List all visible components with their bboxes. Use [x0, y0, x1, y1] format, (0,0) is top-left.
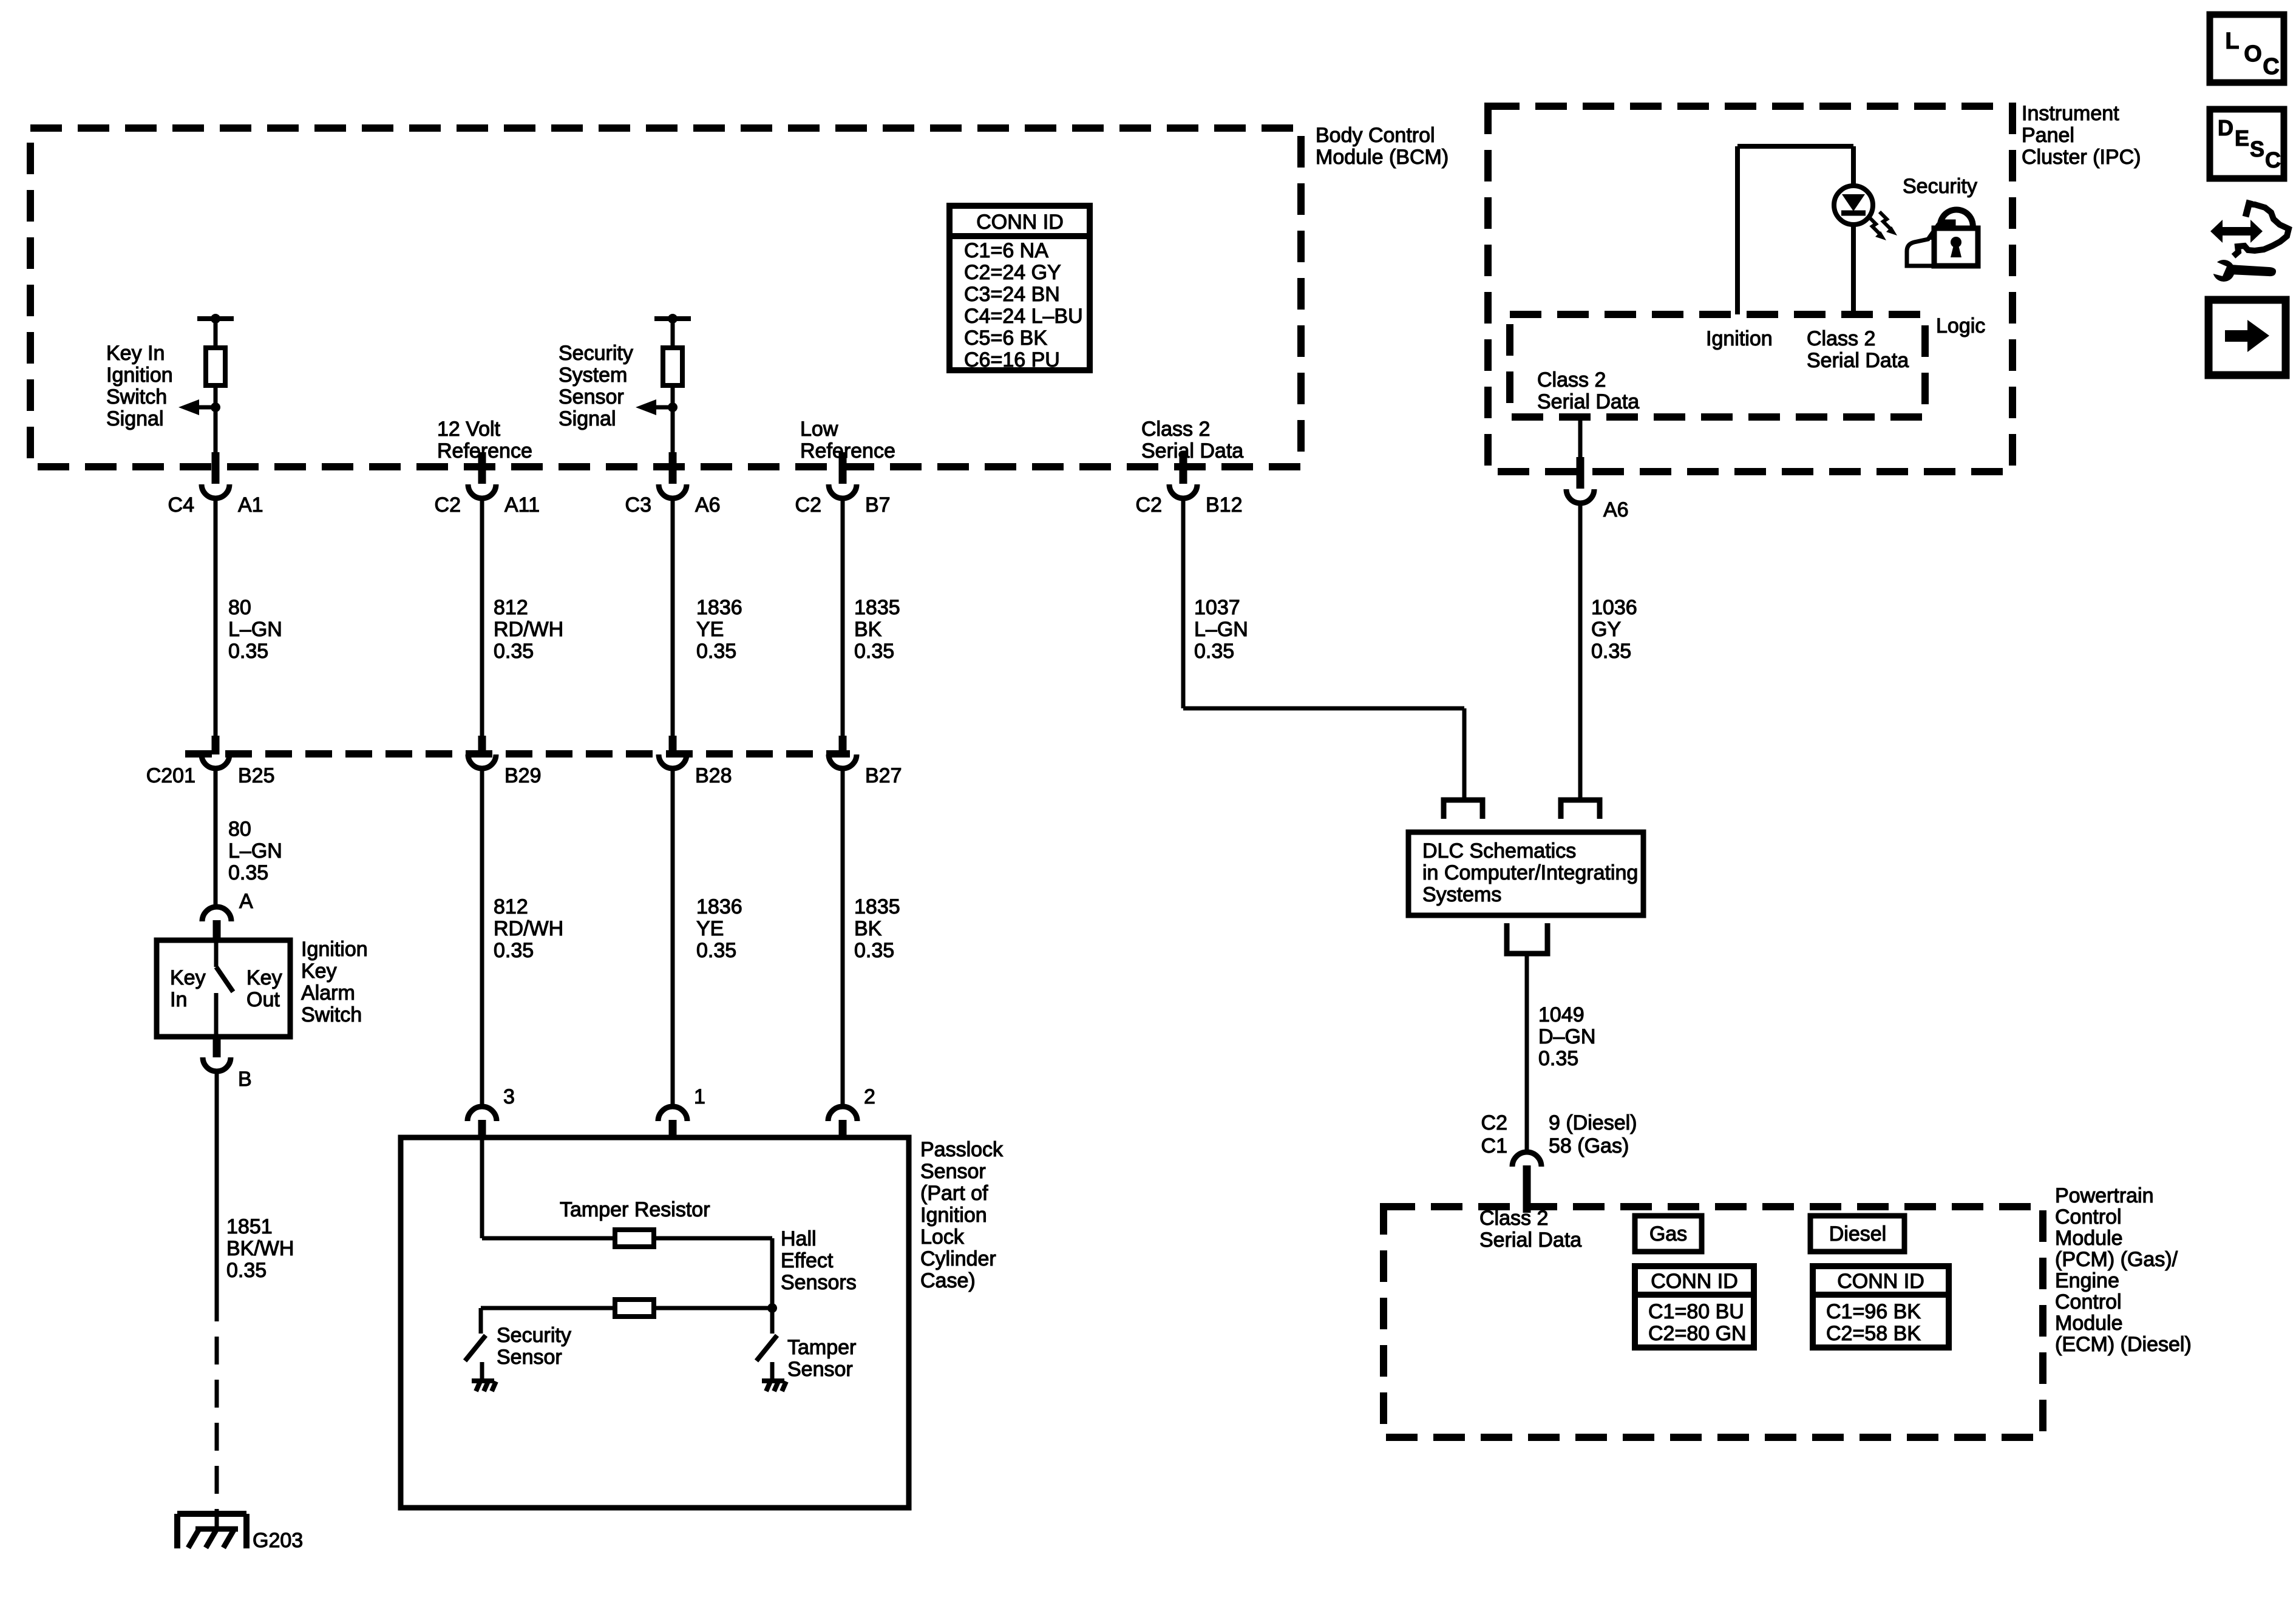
svg-text:1049: 1049	[1538, 1003, 1584, 1026]
svg-text:Class 2: Class 2	[1479, 1207, 1548, 1230]
svg-text:L: L	[2225, 29, 2239, 54]
svg-text:Sensor: Sensor	[787, 1358, 853, 1381]
svg-text:C6=16 PU: C6=16 PU	[964, 348, 1060, 371]
svg-text:Security: Security	[497, 1324, 571, 1347]
svg-text:0.35: 0.35	[228, 640, 268, 663]
svg-text:1851: 1851	[226, 1215, 273, 1238]
svg-text:Tamper Resistor: Tamper Resistor	[560, 1198, 710, 1221]
svg-text:Sensors: Sensors	[781, 1271, 857, 1294]
svg-text:Class 2: Class 2	[1141, 418, 1210, 441]
svg-text:C2: C2	[1136, 493, 1162, 517]
svg-text:Logic: Logic	[1936, 314, 1985, 337]
svg-text:0.35: 0.35	[226, 1259, 267, 1282]
svg-text:Body Control: Body Control	[1316, 124, 1435, 147]
svg-text:L–GN: L–GN	[228, 839, 282, 863]
svg-text:CONN ID: CONN ID	[1837, 1270, 1924, 1293]
svg-text:1836: 1836	[696, 895, 742, 918]
svg-text:Key: Key	[301, 960, 337, 983]
svg-text:0.35: 0.35	[696, 939, 736, 962]
svg-text:80: 80	[228, 818, 251, 841]
svg-text:812: 812	[494, 895, 528, 918]
svg-text:1835: 1835	[854, 895, 900, 918]
svg-text:Out: Out	[246, 988, 280, 1011]
svg-text:B12: B12	[1206, 493, 1243, 517]
svg-text:1835: 1835	[854, 596, 900, 619]
svg-text:C4: C4	[168, 493, 194, 517]
svg-text:in Computer/Integrating: in Computer/Integrating	[1422, 861, 1638, 884]
svg-text:Module: Module	[2055, 1227, 2123, 1250]
svg-text:B25: B25	[238, 764, 275, 787]
svg-text:C201: C201	[146, 764, 195, 787]
svg-text:Instrument: Instrument	[2022, 102, 2119, 125]
svg-text:RD/WH: RD/WH	[494, 618, 563, 641]
svg-text:Serial Data: Serial Data	[1141, 439, 1243, 463]
svg-text:Reference: Reference	[800, 439, 895, 463]
svg-text:58 (Gas): 58 (Gas)	[1549, 1134, 1629, 1158]
svg-text:Tamper: Tamper	[787, 1336, 856, 1359]
svg-text:9 (Diesel): 9 (Diesel)	[1549, 1111, 1637, 1134]
svg-text:Serial Data: Serial Data	[1537, 390, 1639, 413]
svg-text:C1=96 BK: C1=96 BK	[1826, 1300, 1921, 1323]
svg-text:C2: C2	[435, 493, 461, 517]
svg-text:A11: A11	[504, 493, 540, 517]
svg-text:Key In: Key In	[106, 342, 165, 365]
svg-text:Class 2: Class 2	[1537, 368, 1606, 392]
svg-text:Module: Module	[2055, 1312, 2123, 1335]
svg-text:1036: 1036	[1591, 596, 1637, 619]
svg-text:Security: Security	[1903, 175, 1977, 198]
svg-text:Key: Key	[170, 966, 206, 989]
svg-text:0.35: 0.35	[854, 640, 894, 663]
svg-text:Class 2: Class 2	[1807, 327, 1875, 350]
svg-text:Powertrain: Powertrain	[2055, 1184, 2154, 1207]
svg-text:(ECM) (Diesel): (ECM) (Diesel)	[2055, 1333, 2192, 1356]
svg-text:A: A	[239, 890, 253, 913]
svg-text:Module (BCM): Module (BCM)	[1316, 146, 1449, 169]
svg-text:B27: B27	[865, 764, 902, 787]
svg-text:D–GN: D–GN	[1538, 1025, 1595, 1048]
svg-text:G203: G203	[253, 1529, 303, 1552]
svg-text:System: System	[559, 364, 627, 387]
svg-text:C: C	[2265, 147, 2281, 172]
svg-text:C1=6 NA: C1=6 NA	[964, 239, 1048, 262]
svg-text:0.35: 0.35	[494, 939, 534, 962]
svg-text:Ignition: Ignition	[1706, 327, 1773, 350]
svg-text:(PCM) (Gas)/: (PCM) (Gas)/	[2055, 1248, 2178, 1271]
svg-text:BK/WH: BK/WH	[226, 1237, 294, 1260]
svg-text:GY: GY	[1591, 618, 1621, 641]
svg-text:Gas: Gas	[1649, 1222, 1687, 1246]
svg-text:DLC Schematics: DLC Schematics	[1422, 839, 1576, 863]
svg-text:Diesel: Diesel	[1829, 1222, 1886, 1246]
svg-text:Ignition: Ignition	[106, 364, 173, 387]
svg-text:Security: Security	[559, 342, 633, 365]
svg-text:YE: YE	[696, 917, 724, 940]
svg-text:0.35: 0.35	[1591, 640, 1631, 663]
svg-text:C1=80 BU: C1=80 BU	[1648, 1300, 1744, 1323]
svg-text:Effect: Effect	[781, 1249, 834, 1272]
svg-text:Control: Control	[2055, 1205, 2122, 1229]
svg-text:Signal: Signal	[106, 407, 164, 430]
svg-text:Sensor: Sensor	[559, 385, 624, 408]
svg-text:Sensor: Sensor	[920, 1160, 986, 1183]
svg-text:0.35: 0.35	[696, 640, 736, 663]
svg-text:1037: 1037	[1194, 596, 1240, 619]
svg-text:0.35: 0.35	[1538, 1047, 1578, 1070]
svg-text:Key: Key	[246, 966, 282, 989]
svg-text:Case): Case)	[920, 1269, 976, 1292]
svg-text:B: B	[238, 1068, 252, 1091]
svg-text:S: S	[2250, 137, 2264, 161]
svg-text:C1: C1	[1481, 1134, 1507, 1158]
svg-text:L–GN: L–GN	[228, 618, 282, 641]
svg-text:C3: C3	[625, 493, 651, 517]
svg-text:1: 1	[694, 1085, 705, 1108]
svg-text:Switch: Switch	[106, 385, 167, 408]
svg-text:0.35: 0.35	[228, 861, 268, 884]
svg-text:Serial Data: Serial Data	[1479, 1229, 1581, 1252]
svg-text:12 Volt: 12 Volt	[437, 418, 501, 441]
svg-text:D: D	[2218, 115, 2233, 140]
svg-text:C2=24 GY: C2=24 GY	[964, 261, 1061, 284]
svg-text:80: 80	[228, 596, 251, 619]
svg-text:C2: C2	[1481, 1111, 1507, 1134]
svg-text:Cylinder: Cylinder	[920, 1247, 996, 1270]
svg-text:C2: C2	[795, 493, 821, 517]
svg-text:Systems: Systems	[1422, 883, 1501, 906]
svg-text:A1: A1	[238, 493, 263, 517]
svg-text:CONN ID: CONN ID	[976, 211, 1064, 234]
svg-text:3: 3	[503, 1085, 515, 1108]
svg-text:Signal: Signal	[559, 407, 616, 430]
svg-text:B7: B7	[865, 493, 891, 517]
svg-text:Control: Control	[2055, 1290, 2122, 1314]
svg-text:Ignition: Ignition	[920, 1204, 987, 1227]
svg-text:Hall: Hall	[781, 1227, 817, 1250]
svg-text:Engine: Engine	[2055, 1269, 2119, 1292]
svg-text:B28: B28	[695, 764, 732, 787]
svg-text:RD/WH: RD/WH	[494, 917, 563, 940]
svg-text:Serial Data: Serial Data	[1807, 349, 1909, 372]
svg-text:Low: Low	[800, 418, 838, 441]
svg-text:812: 812	[494, 596, 528, 619]
svg-text:In: In	[170, 988, 187, 1011]
svg-text:Sensor: Sensor	[497, 1346, 562, 1369]
svg-text:L–GN: L–GN	[1194, 618, 1248, 641]
svg-text:Panel: Panel	[2022, 124, 2074, 147]
svg-text:B29: B29	[504, 764, 542, 787]
svg-text:C: C	[2263, 54, 2279, 80]
svg-text:C2=58 BK: C2=58 BK	[1826, 1322, 1921, 1345]
svg-text:Alarm: Alarm	[301, 981, 355, 1005]
svg-text:A6: A6	[1603, 498, 1629, 521]
svg-text:YE: YE	[696, 618, 724, 641]
svg-text:C3=24 BN: C3=24 BN	[964, 283, 1060, 306]
svg-text:C5=6 BK: C5=6 BK	[964, 327, 1047, 350]
svg-text:A6: A6	[695, 493, 721, 517]
svg-text:Passlock: Passlock	[920, 1138, 1004, 1161]
svg-text:Ignition: Ignition	[301, 938, 368, 961]
svg-text:0.35: 0.35	[1194, 640, 1234, 663]
svg-text:BK: BK	[854, 618, 882, 641]
svg-text:E: E	[2235, 126, 2249, 151]
svg-text:Cluster (IPC): Cluster (IPC)	[2022, 146, 2141, 169]
svg-text:C2=80 GN: C2=80 GN	[1648, 1322, 1747, 1345]
svg-text:CONN ID: CONN ID	[1651, 1270, 1738, 1293]
svg-text:0.35: 0.35	[854, 939, 894, 962]
svg-text:C4=24 L–BU: C4=24 L–BU	[964, 305, 1083, 328]
svg-text:0.35: 0.35	[494, 640, 534, 663]
svg-text:Switch: Switch	[301, 1003, 362, 1026]
svg-text:BK: BK	[854, 917, 882, 940]
svg-text:O: O	[2244, 41, 2262, 67]
svg-text:1836: 1836	[696, 596, 742, 619]
svg-text:(Part of: (Part of	[920, 1182, 988, 1205]
svg-text:Lock: Lock	[920, 1225, 965, 1249]
svg-text:2: 2	[864, 1085, 875, 1108]
